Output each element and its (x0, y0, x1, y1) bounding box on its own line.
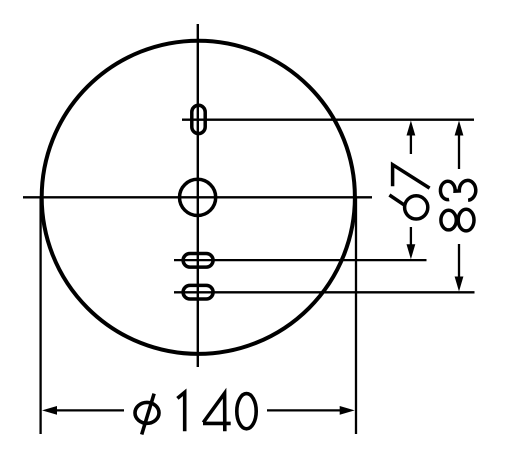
dimension text 83 (rotated) (440, 180, 475, 230)
vertical centerline (197, 24, 199, 367)
horizontal centerline (23, 196, 372, 198)
dimension text 67 (rotated) (389, 165, 429, 219)
digit 6 (405, 196, 428, 219)
arrow down (67, to line y=260) (407, 244, 416, 259)
arrow left (φ140) (42, 406, 57, 415)
phi symbol (135, 402, 159, 423)
outer circle (fixture body, φ140) (42, 41, 355, 354)
extension line through bottom slot (174, 291, 475, 293)
dimension text φ140 (135, 392, 256, 434)
arrow up (67, to line y=120) (407, 121, 416, 136)
dimension line 83 (lower segment) (458, 244, 460, 283)
center hole (180, 179, 216, 215)
arrow down (83, to line y=292) (455, 277, 464, 292)
digit 7 (393, 165, 430, 188)
extension line left (φ140) (39, 198, 41, 434)
arrow right (φ140) (340, 406, 355, 415)
digit 0 (237, 394, 256, 429)
arrow up (83, to line y=120) (455, 121, 464, 136)
dimension line φ140 (right segment) (267, 409, 341, 411)
dimension line 67 (lower segment) (410, 227, 412, 251)
bottom slot (horizontal obround) (183, 285, 213, 299)
digit 3 (440, 180, 475, 200)
digit 1 (177, 392, 184, 431)
middle slot (horizontal obround) (183, 254, 213, 268)
extension line right (φ140) (355, 198, 357, 434)
dimension line 83 (upper segment) (458, 129, 460, 169)
dimension line φ140 (left segment) (56, 409, 124, 411)
digit 8 (441, 210, 456, 230)
extension line through top slot (182, 119, 474, 121)
extension line through middle slot (174, 259, 427, 261)
digit 4 (203, 393, 231, 431)
dimension line 67 (upper segment) (410, 129, 412, 154)
top slot (vertical obround) (192, 105, 205, 133)
